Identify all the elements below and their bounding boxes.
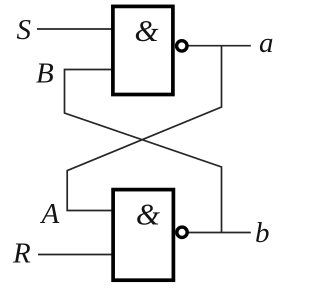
NAND gate U1 inversion bubble bbox=[177, 41, 187, 51]
svg-text:R: R bbox=[12, 237, 31, 269]
wire S input bbox=[37, 28, 112, 30]
svg-text:b: b bbox=[255, 217, 270, 249]
NAND gate U2 inversion bubble bbox=[177, 227, 187, 237]
svg-text:S: S bbox=[17, 14, 32, 46]
svg-text:&: & bbox=[134, 13, 158, 48]
svg-text:B: B bbox=[36, 58, 54, 90]
wire output b bbox=[188, 232, 251, 234]
NAND gate U2 body bbox=[113, 190, 173, 281]
svg-text:&: & bbox=[136, 197, 160, 232]
wire net B (from output b: b-line tap up, diagonal, up to top gate input B) bbox=[65, 70, 222, 233]
NAND gate U1 body bbox=[113, 6, 173, 94]
wire net A (from output a: tap down, diagonal, down to bottom gate input A) bbox=[67, 46, 221, 211]
svg-text:a: a bbox=[259, 27, 274, 59]
wire R input bbox=[38, 254, 112, 256]
svg-text:A: A bbox=[40, 198, 60, 230]
wire output a bbox=[188, 45, 251, 47]
